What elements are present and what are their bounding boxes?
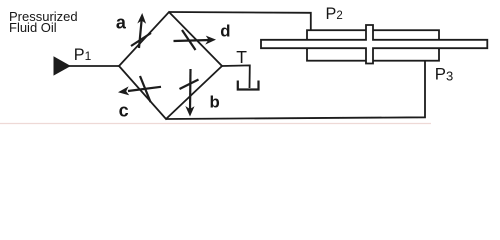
svg-text:P2: P2 [326, 5, 343, 23]
svg-text:P1: P1 [74, 46, 92, 64]
restrictor a: arrow up [137, 13, 146, 48]
tank (reservoir) symbol [238, 81, 259, 90]
bridge diamond (flow lines) [119, 12, 222, 119]
svg-text:T: T [236, 47, 247, 67]
wire: inlet to left vertex [68, 65, 120, 67]
restrictor a (upper-left arm): tick [131, 33, 151, 46]
restrictor c: arrow left [118, 86, 161, 95]
svg-text:d: d [220, 22, 230, 41]
pressure inlet arrow (solid triangle) [54, 56, 71, 75]
restrictor d: arrow right [174, 36, 217, 45]
restrictor d (upper-right arm): tick [182, 30, 196, 50]
svg-text:Fluid Oil: Fluid Oil [9, 20, 57, 35]
restrictor c (lower-left arm): tick [140, 76, 151, 102]
svg-text:b: b [210, 92, 220, 111]
wire: top vertex to P2 port [169, 12, 311, 31]
svg-text:a: a [116, 13, 127, 33]
restrictor b: arrow down [185, 69, 194, 117]
wire: right vertex to tank [222, 65, 250, 88]
piston and double-ended rod (union outline) [261, 25, 487, 64]
wire: bottom vertex to P3 port [166, 61, 425, 119]
svg-text:P3: P3 [435, 64, 453, 83]
scan artifact: faint pink line at bottom [0, 123, 431, 125]
restrictor b (lower-right arm): tick [180, 80, 199, 90]
svg-text:c: c [119, 101, 129, 121]
cylinder body [307, 30, 439, 61]
